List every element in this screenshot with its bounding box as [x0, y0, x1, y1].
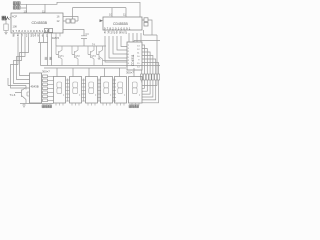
display DS5 [115, 77, 127, 104]
IC U1 CD4553B counter [11, 13, 63, 33]
wire IC1 pin12 to C3 [63, 30, 84, 47]
capacitor C1 [44, 29, 48, 33]
wire reset drop [21, 4, 27, 13]
crystal B1 [66, 19, 70, 23]
label latch [13, 2, 20, 5]
resistor bank RP2 300x7 [141, 74, 160, 80]
svg-text:4CP: 4CP [12, 15, 17, 19]
svg-text:5 4 7 2 10 9 6 1: 5 4 7 2 10 9 6 1 [13, 34, 49, 38]
wire staircase IC1 to 4543 [20, 37, 30, 76]
wire segment lines below resistors to digit bus [142, 80, 159, 103]
wire staircase IC2 to 4511 [105, 36, 127, 62]
transistor Q3 [88, 46, 94, 66]
label reset [13, 6, 20, 9]
resistor R input [4, 24, 8, 31]
wires 4543 to resistors [42, 76, 54, 100]
ground symbol bottom [22, 104, 26, 108]
IC U2 bottom pin stubs [105, 30, 125, 34]
wire 4543 extra left pins [27, 92, 30, 96]
wire transistor T1-6 collector rail [8, 78, 26, 90]
svg-text:CD4511: CD4511 [131, 54, 135, 66]
label input [2, 16, 9, 20]
wire rail y68 [44, 67, 126, 69]
display DS2 [70, 77, 82, 104]
display DS1 [54, 77, 66, 104]
wire 4511 segment elbows right [142, 45, 159, 74]
svg-text:4 7 2 10 9 6 1: 4 7 2 10 9 6 1 [104, 31, 127, 35]
label R base 1 [45, 57, 48, 59]
wire latch rail top [21, 2, 140, 17]
bus ladder DS2-DS3 [82, 79, 86, 102]
display DS6 [129, 77, 143, 104]
wire top segment line [144, 30, 158, 74]
wire pin drop x45 [44, 4, 46, 13]
wire rail y65.5 [41, 65, 161, 67]
wire oscillator rail [73, 8, 127, 19]
wire stub fan left-mid [38, 37, 56, 66]
resistor bank RP1 300x7 [43, 75, 48, 102]
transistor Q2 [72, 46, 78, 66]
crystal boxes right of U2 [144, 18, 148, 22]
bus ladder DS4-DS5 [113, 79, 117, 102]
ground [4, 31, 8, 35]
svg-text:CD4553B: CD4553B [32, 21, 48, 25]
capacitor C2 [49, 29, 53, 33]
label display [129, 105, 139, 108]
display DS4 [101, 77, 113, 104]
IC U4 4543B decoder [30, 73, 42, 103]
label R base 2 [49, 57, 52, 59]
seven-segment displays [54, 77, 143, 104]
wire digit select drops [57, 68, 134, 77]
wire ground rail bottom left [20, 100, 54, 104]
svg-text:9 7 8 2 0 1 0 0 9 1: 9 7 8 2 0 1 0 0 9 1 [104, 26, 131, 30]
svg-text:T1-6: T1-6 [10, 93, 16, 97]
svg-text:4543B: 4543B [31, 85, 39, 89]
IC U1 bottom pin stubs [14, 33, 60, 37]
IC U2 CD4553B counter [100, 17, 143, 35]
transistor T1-6 [15, 88, 26, 100]
bus ladder DS3-DS4 [98, 79, 102, 102]
transistor Q row [56, 46, 127, 66]
wire crystal boxes right of IC2 [142, 20, 152, 35]
svg-text:VT2: VT2 [76, 56, 81, 58]
svg-text:VT1: VT1 [60, 56, 65, 58]
wire resistor 7 stubs [141, 70, 143, 83]
svg-text:300×7: 300×7 [42, 70, 50, 74]
wire input [10, 17, 12, 19]
svg-text:10K: 10K [13, 25, 18, 29]
wire rail y46 [56, 45, 106, 47]
svg-text:VT3: VT3 [92, 56, 97, 58]
label common cathode [42, 105, 52, 108]
wire power rail right [134, 41, 160, 43]
bus ladder DS1-DS2 [66, 79, 70, 102]
display DS3 [86, 77, 98, 104]
transistor Q1 [56, 46, 62, 66]
transistor Q4 [97, 46, 128, 66]
svg-text:9 7 8 2 0 1 0 0 9 6 1 14: 9 7 8 2 0 1 0 0 9 6 1 14 [13, 29, 49, 33]
wire IC1 right pin to crystal [63, 17, 78, 22]
wire input bias resistor drop [5, 18, 7, 24]
display bottom pin stubs [56, 103, 139, 106]
IC U3 CD4511 decoder (vertical) [127, 42, 142, 70]
capacitor C3 [81, 36, 87, 39]
svg-text:1M×5: 1M×5 [52, 36, 60, 40]
svg-text:300×7: 300×7 [126, 71, 134, 75]
svg-text:CD4553B: CD4553B [113, 22, 128, 26]
